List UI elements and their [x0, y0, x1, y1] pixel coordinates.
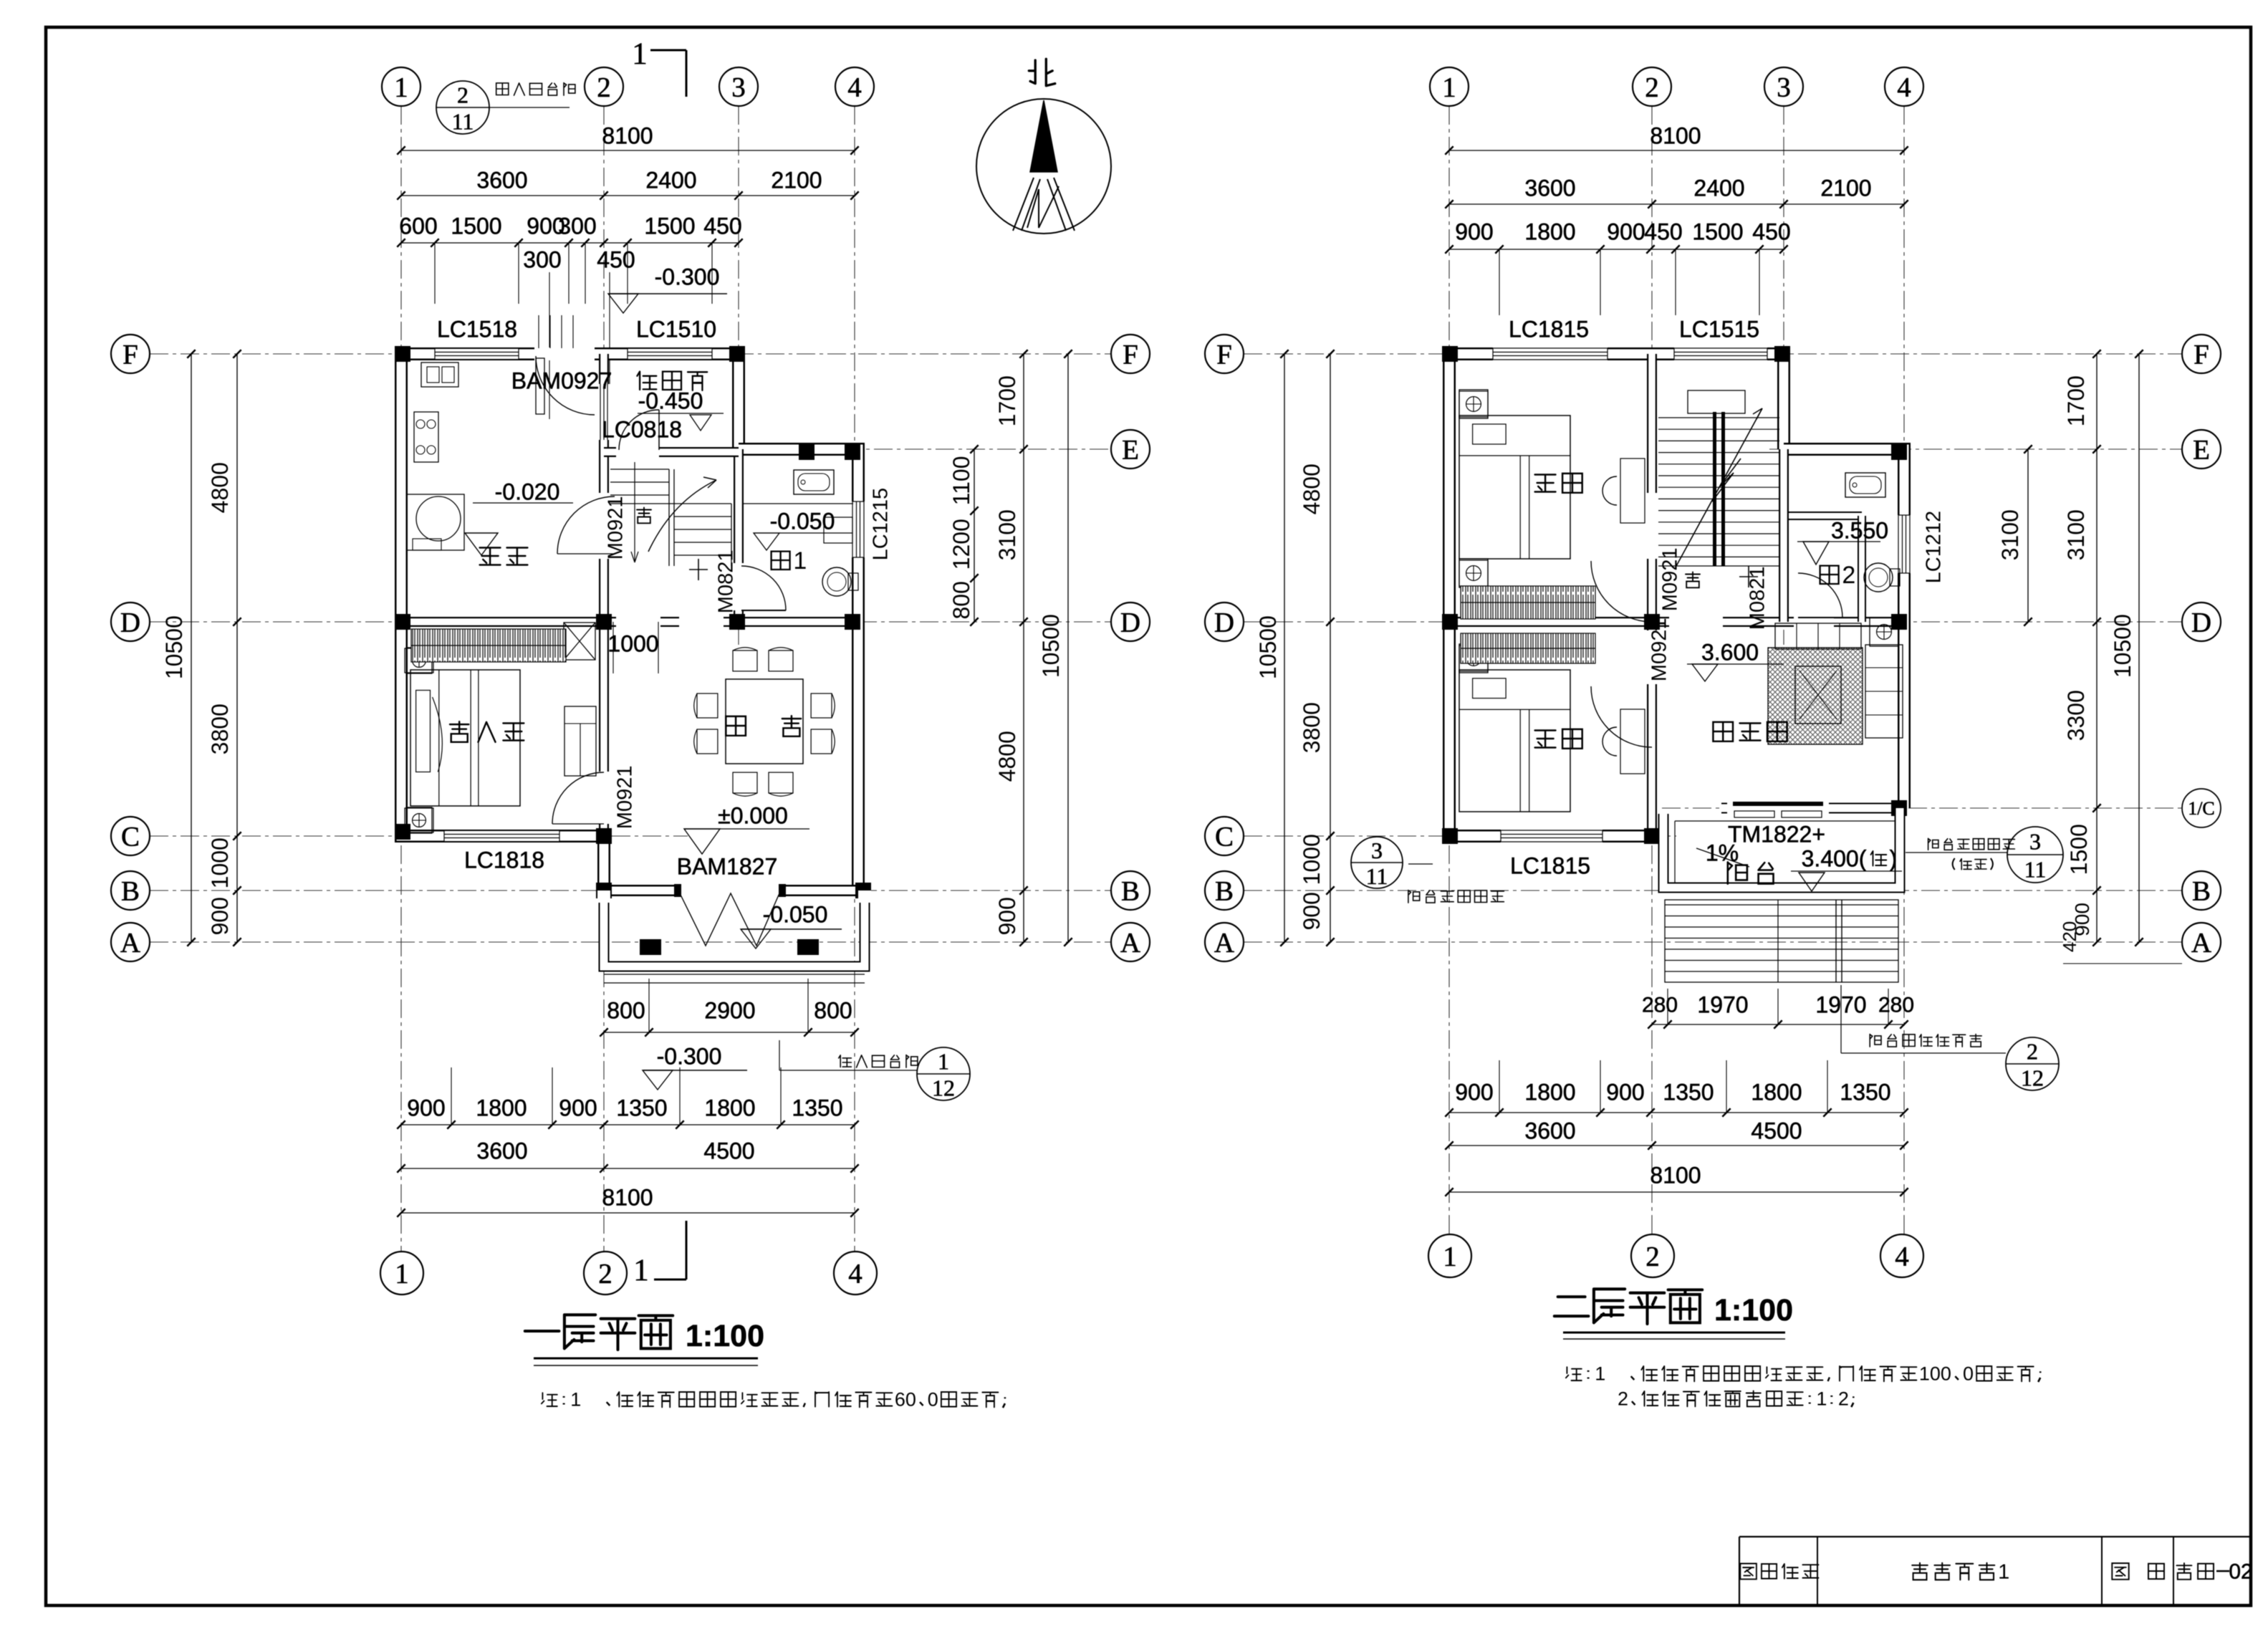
svg-text:10500: 10500: [1038, 614, 1064, 678]
svg-text:800: 800: [607, 997, 645, 1023]
svg-text:60: 60: [895, 1389, 916, 1411]
svg-text:4: 4: [847, 72, 862, 103]
svg-text:900: 900: [1455, 219, 1493, 244]
plan1 right dim line 1700 3100 4800 900: [1023, 354, 1024, 942]
svg-text:LC1818: LC1818: [464, 847, 544, 873]
plan2 bottom axis circles: [1428, 1234, 1471, 1277]
svg-text:BAM1827: BAM1827: [677, 853, 778, 879]
detail bubble 2/11 with leader: [436, 81, 489, 134]
svg-text:4: 4: [1895, 1242, 1909, 1272]
svg-text:F: F: [1216, 340, 1232, 370]
svg-text:280: 280: [1878, 994, 1914, 1017]
svg-text:-0.300: -0.300: [655, 264, 720, 289]
room label 卧室 (south): [1535, 729, 1582, 749]
svg-text:3: 3: [1777, 72, 1791, 103]
svg-text:A: A: [1120, 928, 1140, 959]
svg-text:4: 4: [848, 1259, 862, 1290]
plan2 right inner dim 3100: [2027, 449, 2029, 622]
plan2 door text M0921 at D rotated: [1648, 618, 1671, 682]
plan1 interior wall axis2 vertical: [599, 354, 609, 622]
room label 起居室: [1713, 722, 1787, 741]
stair label 上: [698, 559, 699, 580]
title block label 图纸名称: [1740, 1564, 1818, 1580]
svg-text:E: E: [1122, 435, 1139, 466]
svg-text:1800: 1800: [1524, 219, 1575, 244]
svg-text:3800: 3800: [207, 704, 233, 754]
svg-text:-0.450: -0.450: [638, 388, 703, 413]
svg-text:1700: 1700: [2063, 375, 2089, 426]
plan2 stair label 下: [1686, 572, 1700, 588]
svg-text:800: 800: [814, 997, 852, 1023]
title block: [1739, 1536, 2250, 1537]
plan1 porch entry steps: [604, 974, 865, 975]
svg-text:280: 280: [1642, 994, 1678, 1017]
svg-text:BAM0927: BAM0927: [511, 368, 612, 393]
svg-text:-0.050: -0.050: [763, 901, 828, 927]
svg-text:3: 3: [731, 72, 746, 103]
svg-text:1800: 1800: [704, 1095, 755, 1120]
svg-text:900: 900: [207, 897, 233, 935]
svg-text:900: 900: [1299, 892, 1325, 930]
svg-text:1:100: 1:100: [1714, 1293, 1793, 1327]
plan2 sofa set: [1775, 623, 1861, 649]
svg-text:2: 2: [1842, 562, 1855, 589]
plan1 entry steps top (次入口): [538, 315, 539, 348]
plan1 door arc farm-tool room: [619, 410, 659, 450]
plan2 left dim 10500: [1284, 354, 1285, 942]
svg-text:LC1510: LC1510: [636, 316, 716, 342]
plan1 title 一层平面 1:100: [525, 1315, 673, 1350]
svg-text:B: B: [121, 876, 140, 907]
svg-text:900: 900: [1455, 1079, 1493, 1105]
plan1 top axis circle 1: [382, 67, 421, 106]
svg-text:450: 450: [1752, 219, 1790, 244]
plan2 bathtub: [1845, 473, 1885, 497]
svg-text:D: D: [1120, 608, 1140, 638]
svg-text:F: F: [2193, 340, 2209, 370]
svg-text:3: 3: [2029, 829, 2041, 855]
svg-text:8100: 8100: [1650, 123, 1701, 148]
plan1 right dim line 10500: [1067, 354, 1069, 942]
svg-text:E: E: [2193, 435, 2210, 466]
svg-text:C: C: [121, 822, 140, 853]
plan2 window LC1212: [1899, 515, 1909, 573]
plan2 balcony steps: [1665, 904, 1898, 906]
svg-text:4500: 4500: [703, 1138, 754, 1163]
plan1 wardrobe 老人房 right: [564, 706, 596, 776]
plan1 top dimension row 8100: [401, 150, 855, 151]
svg-text:1800: 1800: [476, 1095, 527, 1120]
svg-text:12: 12: [932, 1075, 955, 1101]
svg-text:3100: 3100: [1997, 509, 2023, 560]
plan2 living room south wall 1/C: [1721, 803, 1904, 814]
svg-text:3100: 3100: [2063, 509, 2089, 560]
label 阳台及雨棚大样 with bubble 2/12: [1840, 985, 1842, 1053]
svg-text:1800: 1800: [1524, 1079, 1575, 1105]
plan1 wardrobe hatch below D: [411, 629, 566, 662]
svg-text:1000: 1000: [207, 837, 233, 888]
plan2 title 二层平面 1:100: [1555, 1289, 1702, 1324]
svg-text:2100: 2100: [771, 167, 822, 193]
plan1 window LC1510: [628, 349, 712, 359]
svg-text:2: 2: [1645, 72, 1659, 103]
plan1 interior wall axis D horizontal: [401, 617, 858, 627]
svg-text:300: 300: [523, 246, 561, 272]
plan1 bathtub: [794, 470, 834, 494]
svg-text:2: 2: [598, 1259, 612, 1290]
plan2 door text M0921 rotated: [1658, 548, 1681, 612]
svg-text:900: 900: [994, 897, 1020, 935]
svg-text:02: 02: [2229, 1560, 2252, 1584]
svg-text:12: 12: [2021, 1065, 2044, 1091]
svg-text:D: D: [1214, 608, 1234, 638]
plan1 door opening gaps: [534, 347, 595, 360]
svg-text:LC0818: LC0818: [602, 416, 682, 442]
room label 老人房: [450, 721, 524, 742]
svg-text:1: 1: [632, 37, 648, 71]
svg-text:F: F: [1123, 340, 1138, 370]
plan1 note: [542, 1389, 1005, 1411]
door text M0921 (kitchen): [604, 496, 627, 560]
plan2 exterior walls: [1449, 354, 1784, 449]
window label LC1215 rotated: [869, 488, 892, 561]
plan2 bed bedroom1: [1459, 416, 1570, 559]
svg-text:2: 2: [597, 72, 611, 103]
svg-text:M0821: M0821: [714, 550, 737, 614]
plan2 right axis circles: [2182, 335, 2221, 373]
plan2 right axis circle 1/C: [2182, 789, 2221, 827]
svg-text:10500: 10500: [2110, 614, 2135, 678]
svg-text:100: 100: [1919, 1363, 1951, 1385]
plan2 bathroom partition: [1789, 512, 1862, 520]
plan1 bottom axis circles: [380, 1252, 423, 1295]
plan2 toilet: [1864, 563, 1893, 592]
svg-text:3.550: 3.550: [1831, 517, 1888, 543]
plan1 gas stove: [414, 412, 438, 462]
plan2 desk bedroom2: [1620, 709, 1645, 774]
room label 农具间: [637, 372, 707, 390]
svg-text:2900: 2900: [704, 997, 755, 1023]
plan1 tool-room south wall at E: [604, 447, 739, 457]
plan2 right dim 1700 3100 3300 1500 900: [2096, 354, 2098, 942]
section mark 1 (top): [650, 49, 686, 52]
svg-text:3.400(: 3.400(: [1802, 845, 1867, 871]
svg-text:B: B: [2192, 876, 2211, 907]
svg-text:900: 900: [559, 1095, 597, 1120]
plan1 bedside tables: [405, 648, 433, 673]
plan2 stair 上 mark: [1748, 566, 1749, 587]
svg-text:3.600: 3.600: [1701, 639, 1759, 665]
level -0.050 (porch): [741, 928, 842, 930]
svg-text:4800: 4800: [207, 462, 233, 513]
north arrow symbol: [976, 99, 1111, 234]
plan2 bottom dim 900 1800 900 1350 1800 1350: [1449, 1112, 1904, 1113]
svg-text:1500: 1500: [644, 213, 695, 239]
svg-text:2: 2: [2027, 1039, 2038, 1065]
plan2 left axis circles: [1205, 335, 1244, 373]
svg-text:-0.050: -0.050: [770, 508, 835, 534]
svg-text:1: 1: [1595, 1363, 1605, 1385]
svg-text:1350: 1350: [792, 1095, 842, 1120]
svg-text:450: 450: [1644, 219, 1682, 244]
plan2 interior wall axis3 (stair/bath): [1779, 449, 1789, 622]
svg-text:11: 11: [1366, 863, 1388, 889]
plan1 left dimension line 4800 3800 1000 900: [236, 354, 238, 942]
plan1 left dimension line 10500: [191, 354, 192, 942]
svg-text:3600: 3600: [476, 167, 527, 193]
section mark 1 (bottom): [686, 1221, 688, 1279]
label 阳台侧板做法 (参照) right with bubble 3/11: [1928, 838, 2015, 850]
svg-text:1000: 1000: [607, 630, 658, 656]
svg-text:3600: 3600: [1524, 1118, 1575, 1143]
svg-text:M0921: M0921: [1648, 618, 1671, 682]
svg-text:450: 450: [703, 213, 741, 239]
svg-text:420: 420: [2059, 921, 2080, 952]
svg-text:2100: 2100: [1820, 175, 1871, 201]
svg-text:2400: 2400: [1693, 175, 1744, 201]
plan2 axis grid lines (dash-dot): [1448, 106, 1450, 1234]
stair label 下: [637, 508, 651, 524]
svg-text:0: 0: [1963, 1363, 1974, 1385]
plan1 top axis circle 2: [585, 67, 623, 106]
plan1 bottom dim row 3600 4500: [401, 1168, 855, 1169]
room label 堂前: [726, 716, 801, 736]
svg-text:2: 2: [457, 82, 469, 108]
plan2 fireplace/tv: [1795, 666, 1841, 724]
plan1 wall at axis B / porch top: [604, 885, 858, 896]
svg-text:10500: 10500: [1255, 615, 1281, 679]
plan2 wardrobe hatch below D: [1461, 633, 1595, 663]
plan2 top dimension 8100: [1449, 150, 1904, 151]
plan1 bathroom walls (axis3/E): [734, 449, 744, 622]
plan1 window LC1215 vertical: [853, 501, 863, 557]
svg-text:1350: 1350: [616, 1095, 667, 1120]
svg-text:900: 900: [1607, 219, 1645, 244]
svg-text:1700: 1700: [994, 375, 1020, 426]
svg-text:8100: 8100: [602, 123, 653, 148]
svg-text:3: 3: [1371, 837, 1383, 863]
svg-text:F: F: [122, 340, 138, 370]
svg-text:300: 300: [558, 213, 596, 239]
door text M0821 (bath): [714, 550, 737, 614]
level -0.300 (bottom): [643, 1070, 747, 1071]
plan2 bottom dim 280 1970 1970 280: [1652, 1024, 1904, 1025]
plan2 bottom dim 3600 4500: [1449, 1145, 1904, 1146]
svg-text:4: 4: [1897, 72, 1911, 103]
plan1 round basin: [407, 494, 464, 550]
plan2 top dimension 3600 2400 2100: [1449, 203, 1904, 205]
svg-text:2: 2: [1838, 1388, 1849, 1410]
svg-text:-0.020: -0.020: [495, 479, 560, 504]
plan1 right dim line 1100 1200 800: [974, 449, 975, 622]
svg-text:LC1815: LC1815: [1510, 853, 1590, 878]
svg-text:1500: 1500: [451, 213, 501, 239]
svg-text:11: 11: [452, 109, 474, 135]
plan1 top dimension row 600 1500 900 300 1500 450: [401, 242, 739, 244]
svg-text:1000: 1000: [1299, 834, 1325, 885]
svg-text:1/C: 1/C: [2188, 798, 2215, 819]
plan2 balcony door TM1822 leafs: [1733, 802, 1823, 806]
svg-text:8100: 8100: [1650, 1162, 1701, 1188]
svg-text:1350: 1350: [1663, 1079, 1714, 1105]
plan2 door/window gaps: [1493, 347, 1608, 360]
plan1 bathroom washbasin: [824, 517, 852, 543]
plan1 top axis circle 4: [835, 67, 874, 106]
svg-text:LC1212: LC1212: [1922, 511, 1945, 584]
svg-text:3100: 3100: [994, 509, 1020, 560]
plan2 notes: [1566, 1363, 2040, 1385]
svg-text:D: D: [120, 608, 140, 638]
plan1 columns: [395, 346, 410, 362]
svg-text:D: D: [2191, 608, 2211, 638]
plan1 bottom dim row 800 2900 800 (porch): [604, 1032, 855, 1033]
svg-text:1: 1: [1998, 1560, 2009, 1583]
plan2 door arc bathroom M0821: [1798, 573, 1842, 618]
plan2 door text M0821 rotated: [1746, 567, 1769, 630]
svg-text:600: 600: [399, 213, 437, 239]
svg-text:3600: 3600: [476, 1138, 527, 1163]
plan1 top axis circle 3: [719, 67, 758, 106]
room label 卧室 (north): [1535, 474, 1582, 493]
svg-text:1100: 1100: [948, 456, 974, 505]
title block label 图号: [2112, 1563, 2128, 1580]
svg-text:3800: 3800: [1299, 702, 1325, 753]
plan1 door arc M0921 kitchen: [557, 496, 615, 554]
svg-text:8100: 8100: [602, 1184, 653, 1210]
plan1 left axis circles F D C B A: [111, 335, 150, 373]
svg-text:C: C: [1215, 822, 1234, 853]
svg-text:A: A: [1214, 928, 1234, 959]
plan2 desk bedroom1: [1620, 458, 1645, 523]
svg-text:M0921: M0921: [613, 766, 636, 830]
svg-text:A: A: [2191, 928, 2211, 959]
plan1 top dim witness lines: [434, 243, 436, 304]
plan2 columns: [1442, 346, 1458, 362]
plan2 balcony walls: [1663, 808, 1900, 888]
plan2 living room rug (hatched): [1768, 648, 1863, 744]
label 阳台侧板做法 left with bubble 3/11: [1351, 837, 1403, 888]
svg-text:11: 11: [2024, 857, 2047, 883]
svg-text:1: 1: [633, 1254, 649, 1287]
plan2 right dim 10500: [2138, 354, 2140, 942]
plan1 kitchen counter & sink cabinet: [421, 363, 458, 387]
svg-text:B: B: [1215, 876, 1234, 907]
svg-text:M0821: M0821: [1746, 567, 1769, 630]
plan1 window LC0818 in interior wall: [600, 384, 601, 440]
plan2 door arc bedroom1: [1591, 561, 1652, 622]
level -0.300 (top entry): [610, 293, 727, 294]
door label M0921 bedroom rotated: [613, 766, 636, 830]
svg-text:1: 1: [395, 1259, 409, 1290]
plan1 porch: [604, 890, 865, 966]
svg-text:4800: 4800: [994, 731, 1020, 782]
plan1 door sill blocks: [674, 884, 681, 897]
plan2 wardrobe hatch above D: [1461, 586, 1595, 619]
label 次入口台阶: [496, 83, 575, 96]
plan2 top dim witness lines: [1499, 249, 1500, 315]
svg-text:0: 0: [928, 1389, 938, 1411]
plan1 dining table 堂前: [726, 679, 803, 764]
label 主入口台阶 with bubble 1/12: [839, 1055, 918, 1068]
svg-text:1970: 1970: [1697, 992, 1748, 1017]
plan1 bathroom partition line: [744, 503, 853, 504]
svg-text:LC1515: LC1515: [1679, 316, 1759, 342]
room label 厨房: [480, 548, 528, 565]
title block number 建施-02: [2177, 1563, 2214, 1580]
plan1 bottom dim row 900 1800 900 1350 1800 1350: [401, 1124, 855, 1125]
svg-text:1500: 1500: [2066, 824, 2092, 875]
room label 卫1: [772, 547, 807, 575]
plan1 window LC1518: [435, 349, 519, 359]
plan2 interior wall axis D: [1449, 617, 1904, 627]
window label LC1212 rotated: [1922, 511, 1945, 584]
plan1 kitchen cabinet with X: [564, 623, 595, 660]
svg-text:LC1215: LC1215: [869, 488, 892, 561]
svg-text:1: 1: [394, 72, 408, 103]
plan2 bed bedroom2: [1459, 670, 1570, 812]
svg-text:800: 800: [948, 581, 974, 619]
svg-text:1: 1: [570, 1389, 581, 1411]
room label 卫2: [1820, 562, 1856, 589]
svg-text:1350: 1350: [1840, 1079, 1890, 1105]
svg-text:TM1822+: TM1822+: [1728, 821, 1825, 847]
svg-text:4800: 4800: [1299, 464, 1325, 514]
svg-text:1200: 1200: [948, 519, 974, 570]
svg-text:3300: 3300: [2063, 690, 2089, 741]
svg-text:1:100: 1:100: [686, 1319, 764, 1353]
svg-text:-0.300: -0.300: [657, 1043, 722, 1069]
svg-text:LC1815: LC1815: [1509, 316, 1589, 342]
svg-text:900: 900: [407, 1095, 445, 1120]
plan1 double door BAM1827 leafs: [680, 893, 779, 946]
svg-text:10500: 10500: [161, 615, 187, 679]
svg-text:B: B: [1121, 876, 1140, 907]
svg-text:1: 1: [1816, 1388, 1827, 1410]
plan1 bottom dim row 8100: [401, 1212, 855, 1214]
plan1 staircase: [610, 469, 669, 470]
svg-text:2400: 2400: [645, 167, 696, 193]
svg-text:2: 2: [1645, 1242, 1660, 1272]
plan2 window LC1815 bottom: [1501, 831, 1603, 841]
plan1 door arc M0921 bedroom: [552, 772, 604, 824]
plan2 bottom dim 8100: [1449, 1191, 1904, 1193]
plan2 window LC1815 top: [1493, 349, 1608, 359]
plan2 top dimension 900 1800 900 450 1500 450: [1449, 249, 1784, 250]
plan2 staircase: [1688, 390, 1745, 413]
svg-text:A: A: [120, 928, 140, 959]
plan2 left dim 4800 3800 1000 900: [1330, 354, 1331, 942]
svg-text:3600: 3600: [1524, 175, 1575, 201]
svg-text:900: 900: [1606, 1079, 1644, 1105]
svg-text:1: 1: [1442, 72, 1456, 103]
plan1 axis grid lines (dash-dot): [400, 106, 402, 1252]
plan1 bed 老人房: [410, 670, 520, 806]
label 阳台: [1728, 862, 1774, 883]
plan2 interior wall axis2: [1647, 354, 1657, 622]
svg-text:): ): [1890, 845, 1898, 871]
svg-text:2: 2: [1618, 1388, 1628, 1410]
plan1 door arc M0821 bathroom: [741, 566, 786, 610]
svg-text:±0.000: ±0.000: [718, 802, 788, 828]
plan1 top dimension row 3600 2400 2100: [401, 195, 855, 196]
svg-text:1500: 1500: [1692, 219, 1743, 244]
svg-text:1: 1: [793, 547, 807, 575]
plan1 door arc BAM0927: [536, 356, 595, 415]
svg-text:M0921: M0921: [604, 496, 627, 560]
title block drawing name 楼梯大样1: [1912, 1560, 2009, 1583]
svg-text:4500: 4500: [1751, 1118, 1802, 1143]
svg-text:1800: 1800: [1751, 1079, 1802, 1105]
